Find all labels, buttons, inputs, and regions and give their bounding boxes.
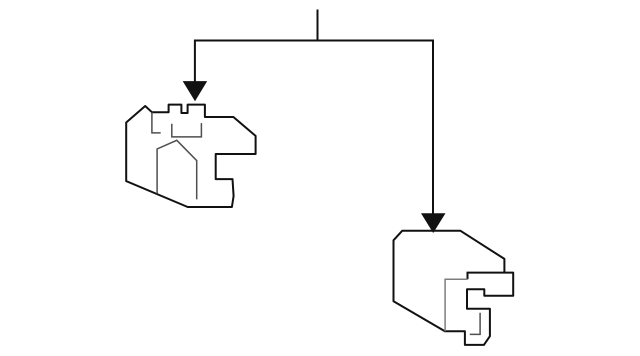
- wire top stub: [317, 10, 319, 41]
- left bracket inner ledge line: [152, 112, 161, 133]
- arrowhead right: [421, 213, 446, 233]
- right bracket inner shelf line: [445, 279, 467, 331]
- arrowhead left: [183, 81, 208, 101]
- right bracket step edge: [468, 273, 505, 280]
- left bracket inner pocket: [172, 123, 202, 137]
- wire right arrow shaft: [432, 40, 434, 216]
- left bracket outline: [126, 105, 255, 207]
- right bracket inner hook line: [470, 313, 480, 335]
- wire left arrow shaft: [194, 40, 196, 85]
- left bracket inner ridge: [157, 140, 197, 199]
- right bracket outline: [394, 231, 514, 345]
- wire horizontal connector: [195, 40, 433, 42]
